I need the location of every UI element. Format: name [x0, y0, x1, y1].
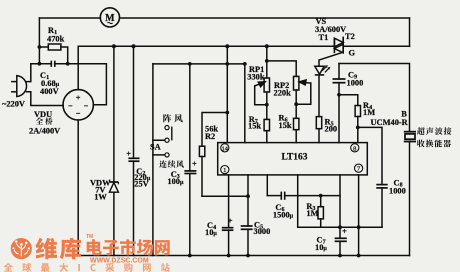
wire pin3 drop to L2 — [266, 175, 268, 196]
wire R1 branch — [39, 46, 48, 48]
wire pin4 drop to rail L3 — [297, 175, 299, 227]
svg-text:200: 200 — [325, 124, 338, 133]
node dot C1 right — [66, 62, 70, 66]
wire top line right segment — [120, 17, 409, 19]
node dot R3 top — [319, 194, 323, 198]
svg-text:1W: 1W — [94, 193, 107, 202]
resistor R4 1M — [355, 106, 360, 117]
svg-text:15k: 15k — [248, 122, 261, 131]
node dot L1 right — [246, 194, 250, 198]
svg-text:−: − — [76, 109, 81, 118]
svg-text:+: + — [76, 93, 81, 102]
node dot RP bracket — [265, 59, 269, 63]
svg-text:470k: 470k — [47, 35, 65, 44]
wire gate diagonal — [319, 52, 343, 66]
wire L1 — [202, 195, 248, 197]
svg-text:25V: 25V — [134, 179, 148, 188]
wire plug upper prong feed — [27, 64, 31, 82]
node dot rail C3 — [188, 62, 192, 66]
watermark weiku — [35, 238, 81, 260]
wire R5 bottom pin10 — [318, 129, 320, 143]
wire transducer bottom to ground bus — [409, 142, 411, 256]
svg-text:3000: 3000 — [254, 227, 271, 236]
triac VS upper triangle — [334, 38, 343, 47]
wire T2 to right edge — [343, 45, 409, 47]
pin 8 circle — [351, 144, 359, 152]
node dot R2 tee — [225, 111, 229, 115]
wire RP2 bottom to R6 — [295, 90, 297, 118]
svg-text:1M: 1M — [306, 209, 318, 218]
svg-text:M: M — [105, 13, 115, 24]
svg-text:LT163: LT163 — [282, 153, 308, 163]
resistor R6 15k — [294, 118, 299, 129]
svg-text:1000: 1000 — [347, 79, 364, 88]
svg-text:UCM40-R: UCM40-R — [371, 118, 409, 127]
pin 1 circle — [221, 166, 229, 174]
pin 14 circle — [221, 144, 229, 152]
resistor R3 1M — [318, 207, 323, 219]
svg-text:100μ: 100μ — [167, 177, 184, 186]
wire C1 left — [31, 63, 52, 65]
node dot R4 bottom — [356, 126, 360, 130]
node dot bus C3 — [188, 254, 192, 258]
switch SA contact third — [165, 153, 169, 157]
wire pin8 node to C8 — [358, 127, 382, 184]
capacitor C1 plates — [50, 61, 52, 67]
svg-text:VDU: VDU — [34, 110, 52, 119]
node dot rail end — [243, 62, 247, 66]
node dot rail pin14 — [225, 62, 229, 66]
wire rail end drop pin13 — [244, 64, 246, 143]
wire pin6 drop to ground — [358, 175, 360, 256]
svg-text:R2: R2 — [205, 132, 215, 141]
triac VS bars — [333, 38, 335, 53]
svg-text:400V: 400V — [40, 87, 59, 96]
wire main bus — [78, 45, 334, 47]
node dot bus pin6 — [357, 254, 361, 258]
wire C2 column — [133, 46, 135, 158]
wire plug lower to bridge AC1 — [27, 92, 64, 106]
wire bridge plus up to bus — [77, 46, 79, 89]
watermark logo disc — [11, 238, 32, 259]
svg-text:220k: 220k — [274, 89, 292, 98]
node dot RP1 wiper join — [265, 103, 269, 107]
svg-text:+: + — [192, 160, 197, 169]
wire C8 bottom to rail L3 — [381, 188, 383, 227]
capacitor C9 plates — [333, 78, 346, 80]
resistor R1 470k — [48, 44, 61, 50]
svg-text:G: G — [349, 49, 356, 58]
resistor R7 15k — [264, 119, 269, 130]
wire RP1 bottom to R7 — [266, 92, 268, 119]
capacitor C2 plates — [128, 157, 139, 159]
wire L2 right — [285, 195, 340, 197]
wire pin1 drop to L1 — [228, 175, 230, 196]
node dot R1 left — [38, 45, 42, 49]
wire R4 bottom to pin8 node — [357, 117, 359, 143]
potentiometer RP1 330k — [264, 78, 269, 92]
svg-text:WWW.DZSC.COM: WWW.DZSC.COM — [90, 258, 149, 265]
node dot bus VDW — [112, 44, 116, 48]
svg-text:T1: T1 — [319, 33, 329, 42]
svg-text:+: + — [342, 227, 347, 236]
wire R2 bottom to L1 — [202, 157, 229, 197]
label gust — [163, 114, 182, 122]
node dot rail L3 C7 — [338, 225, 342, 229]
svg-text:+: + — [126, 149, 131, 158]
plug P — [17, 76, 27, 97]
wire R3 bottom to rail L3 — [320, 219, 322, 227]
IC U1 LT163 box — [218, 143, 368, 175]
wire L2 left — [267, 195, 281, 197]
node dot bus C2 — [132, 44, 136, 48]
wire SA column to ground — [152, 155, 154, 256]
wire right edge drop — [409, 18, 411, 46]
wire rail y64 — [153, 63, 245, 65]
wire bridge minus down to ground bus — [77, 120, 79, 256]
node dot C1 left — [38, 62, 42, 66]
svg-text:SA: SA — [150, 143, 161, 152]
wire RP feed — [266, 46, 268, 78]
node dot bus pin14 col — [225, 44, 229, 48]
svg-text:−: − — [84, 101, 89, 110]
wire node down to pin9 — [338, 95, 340, 143]
node dot bus RP feed — [265, 44, 269, 48]
wire SA lower contact jog — [153, 140, 165, 155]
wire R7 bottom pin12 — [266, 131, 268, 143]
wire RP1 wiper — [255, 84, 267, 104]
wire SA feed column — [153, 64, 165, 140]
svg-text:TM: TM — [86, 234, 93, 240]
bridge rectifier VDU circle — [63, 90, 93, 120]
label transducer cn — [417, 127, 452, 135]
wire pin2 drop through L1 to C5 — [247, 175, 249, 226]
capacitor C3 plates — [184, 170, 196, 172]
node dot C9 bottom — [337, 93, 341, 97]
capacitor C5 plates — [241, 225, 253, 227]
wire C4 drop — [228, 196, 230, 228]
switch SA contact upper — [165, 126, 169, 130]
svg-text:1500μ: 1500μ — [273, 211, 294, 220]
wire R6 bottom pin11 — [295, 130, 297, 143]
wire R2 tee — [202, 113, 227, 147]
node dot rail L3 pin6 — [357, 225, 361, 229]
wire top line left segment — [39, 17, 99, 19]
node dot bus C7 — [338, 254, 342, 258]
wire pin5 drop through L2 to C7 — [339, 175, 341, 238]
wire ground bus — [78, 255, 409, 257]
pin 7 circle — [355, 164, 363, 172]
LED VL — [315, 66, 324, 74]
zener diode VDW — [110, 181, 119, 183]
wire C9 bottom to node — [338, 83, 340, 95]
svg-text:14: 14 — [222, 145, 229, 152]
watermark slogan — [4, 263, 170, 272]
svg-text:1000: 1000 — [389, 186, 406, 195]
svg-text:15k: 15k — [279, 121, 292, 130]
capacitor C7 plates — [335, 237, 347, 239]
resistor R2 56k — [199, 146, 204, 156]
wire LED cathode to R5 — [318, 76, 320, 117]
wire rail L3 — [298, 226, 382, 228]
wire R3 top — [320, 196, 322, 207]
svg-text:1M: 1M — [363, 108, 375, 117]
capacitor C6 plates — [280, 192, 282, 200]
triac VS lower triangle — [334, 44, 343, 53]
wire left vertical node A — [38, 18, 40, 64]
transducer B UCM40-R — [404, 131, 416, 133]
wire C1 right to bridge AC2 — [55, 64, 107, 105]
capacitor C4 plates — [222, 227, 234, 229]
svg-text:T2: T2 — [345, 32, 355, 41]
wire node to R4 — [339, 95, 358, 106]
wire bus to IC pin14 column — [226, 46, 228, 142]
svg-text:2A/400V: 2A/400V — [29, 127, 60, 136]
wire RP2 wiper — [296, 83, 311, 105]
svg-text:330k: 330k — [247, 72, 265, 81]
wire RP bracket — [267, 61, 296, 77]
potentiometer RP2 220k — [294, 76, 299, 90]
wire top edge right box — [339, 64, 410, 132]
wire VDW column — [113, 46, 115, 182]
wire C3 column — [189, 64, 191, 171]
capacitor C8 plates — [376, 184, 387, 186]
resistor R5 200 — [316, 117, 321, 129]
node dot bus C4 — [227, 254, 231, 258]
svg-text:8: 8 — [353, 145, 356, 152]
svg-text:+: + — [228, 216, 233, 225]
node dot bus C5 — [246, 254, 250, 258]
switch SA contact lower — [165, 138, 169, 142]
wire C9 top from rail corner — [338, 64, 340, 80]
svg-text:−: − — [68, 101, 73, 110]
svg-text:1: 1 — [223, 167, 226, 174]
label continuous — [159, 160, 184, 168]
node dot RP2 wiper join — [294, 102, 298, 106]
svg-text:~220V: ~220V — [2, 100, 25, 109]
motor M1 — [100, 8, 119, 27]
watermark dianzishichangwang — [87, 239, 170, 256]
switch SA blade — [171, 127, 173, 141]
